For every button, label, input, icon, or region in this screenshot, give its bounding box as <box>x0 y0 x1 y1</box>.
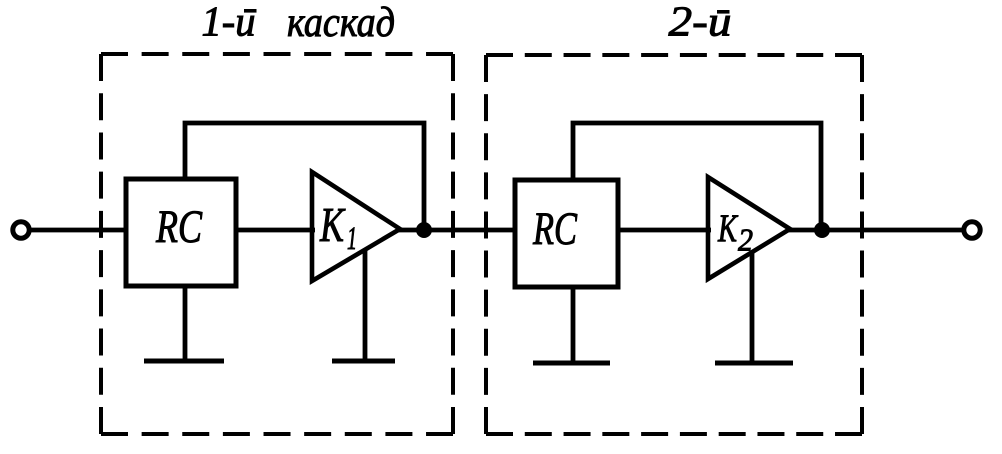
svg-text:2: 2 <box>738 222 753 258</box>
svg-text:2-и: 2-и <box>669 0 732 46</box>
svg-text:RC: RC <box>155 201 202 253</box>
svg-text:1: 1 <box>347 221 357 257</box>
svg-text:K: K <box>319 197 345 252</box>
svg-text:каскад: каскад <box>287 0 395 46</box>
svg-text:RC: RC <box>532 203 577 255</box>
svg-text:K: K <box>717 207 738 250</box>
svg-text:1-и: 1-и <box>202 0 256 46</box>
